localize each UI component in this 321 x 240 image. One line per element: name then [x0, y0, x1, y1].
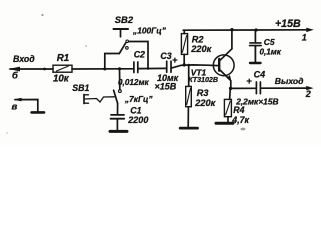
svg-text:SB2: SB2	[115, 14, 134, 25]
svg-text:1: 1	[302, 33, 307, 43]
svg-text:R1: R1	[57, 53, 69, 64]
svg-text:×15В: ×15В	[155, 82, 177, 92]
svg-text:С4: С4	[254, 70, 266, 80]
svg-text:„100Гц”: „100Гц”	[132, 26, 167, 36]
svg-text:0,012мк: 0,012мк	[118, 78, 150, 87]
svg-text:+: +	[246, 75, 252, 86]
svg-text:С1: С1	[130, 105, 141, 115]
svg-text:Вход: Вход	[13, 54, 35, 64]
svg-text:2200: 2200	[127, 115, 148, 125]
svg-text:С5: С5	[264, 37, 275, 47]
svg-text:+15В: +15В	[275, 18, 301, 30]
svg-text:SB1: SB1	[72, 83, 89, 93]
svg-text:+: +	[172, 54, 178, 65]
svg-text:R3: R3	[197, 88, 209, 98]
svg-text:„7кГц”: „7кГц”	[124, 94, 153, 104]
svg-text:КТ3102В: КТ3102В	[188, 76, 218, 84]
svg-text:С2: С2	[134, 50, 145, 60]
svg-text:Выход: Выход	[275, 76, 304, 86]
svg-text:R2: R2	[192, 34, 205, 44]
svg-text:0,1мк: 0,1мк	[260, 47, 282, 56]
svg-text:в: в	[12, 101, 18, 112]
svg-text:220к: 220к	[194, 98, 216, 108]
svg-text:С3: С3	[160, 51, 171, 61]
svg-text:10к: 10к	[53, 74, 70, 85]
svg-text:220к: 220к	[190, 44, 212, 54]
svg-text:2: 2	[305, 89, 311, 99]
svg-text:R4: R4	[233, 105, 244, 115]
svg-text:4,7к: 4,7к	[231, 115, 249, 125]
